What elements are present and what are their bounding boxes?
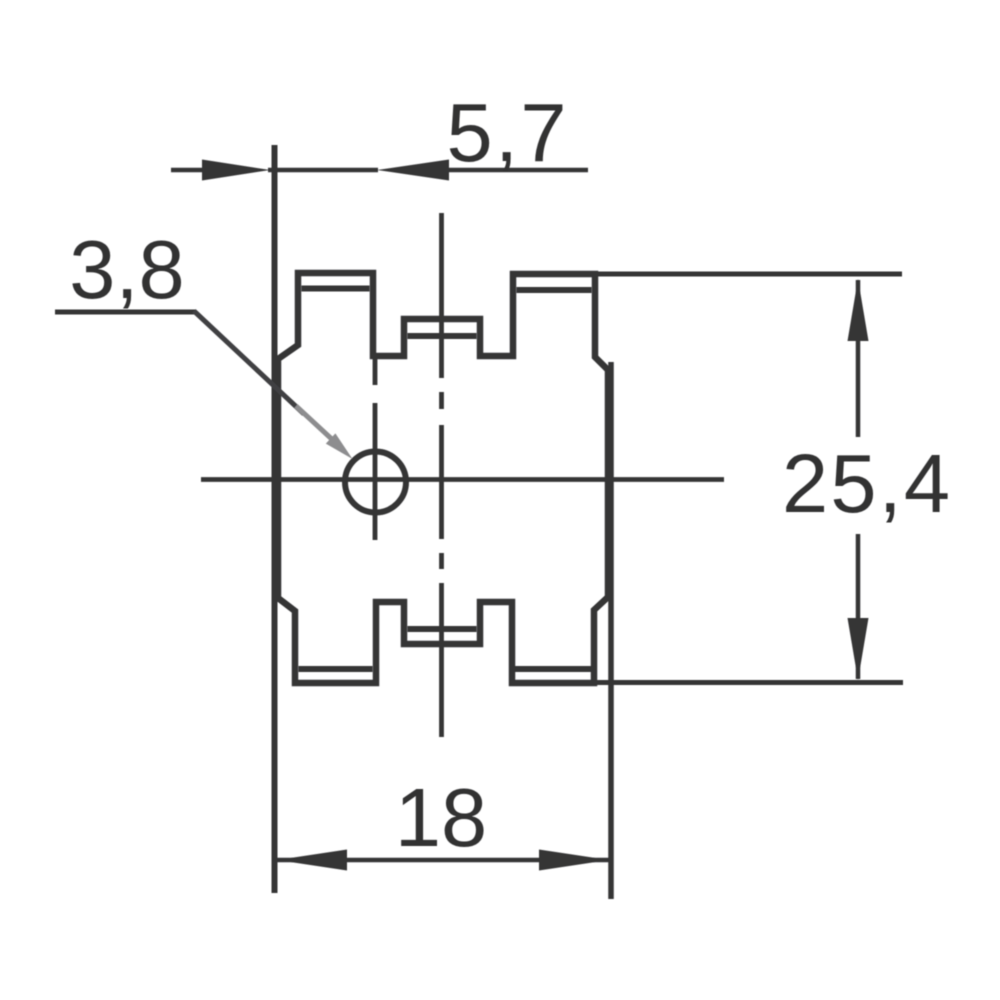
svg-text:5,7: 5,7 bbox=[447, 86, 567, 179]
svg-text:18: 18 bbox=[395, 771, 487, 864]
svg-text:25,4: 25,4 bbox=[782, 437, 950, 530]
svg-text:3,8: 3,8 bbox=[69, 223, 184, 316]
